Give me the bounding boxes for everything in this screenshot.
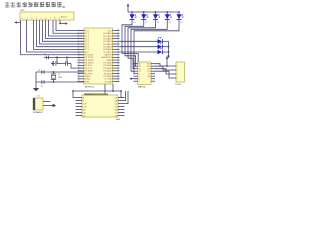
svg-text:21: 21: [117, 80, 119, 82]
svg-text:L4: L4: [169, 22, 171, 24]
capacitor C2: [41, 80, 43, 84]
capacitor C5: [66, 57, 68, 63]
wire reset rail: [44, 56, 84, 58]
svg-text:1: 1: [78, 29, 79, 31]
crystal Y1: [53, 71, 55, 73]
wire RST to MCU: [51, 63, 55, 65]
capacitor C3 (series on rail): [45, 56, 47, 60]
wire MCU GND down: [112, 84, 114, 91]
svg-text:26: 26: [117, 67, 119, 69]
svg-text:29: 29: [117, 59, 119, 61]
LEDs L1-L5: [131, 11, 133, 13]
svg-text:24: 24: [117, 72, 119, 74]
power port arrow down: [167, 56, 170, 59]
resistor pack RP1: [20, 12, 74, 20]
svg-text:P2.6/A14: P2.6/A14: [104, 64, 113, 67]
svg-text:C3: C3: [43, 54, 45, 56]
svg-text:30: 30: [117, 56, 119, 58]
svg-text:8888: 8888: [116, 119, 120, 120]
svg-text:L3: L3: [157, 22, 159, 24]
speaker B1: [33, 98, 43, 110]
svg-text:2: 2: [78, 32, 79, 34]
wire B1 out1: [43, 101, 51, 103]
svg-text:13: 13: [78, 61, 80, 63]
U2 designator: [84, 93, 108, 95]
wires bus to U2 right pins: [121, 91, 125, 98]
svg-text:P2.7/A15: P2.7/A15: [104, 62, 113, 65]
svg-text:C1: C1: [38, 69, 40, 71]
svg-text:10: 10: [78, 53, 80, 55]
LEDs L6-L8 (horizontal): [120, 40, 158, 42]
svg-text:31: 31: [117, 53, 119, 55]
svg-text:EA/VPP: EA/VPP: [105, 54, 113, 57]
svg-text:16: 16: [78, 69, 80, 71]
svg-text:ALE/PROG: ALE/PROG: [102, 56, 113, 59]
wire RP1 pin1 / VCC rail: [21, 20, 85, 55]
svg-text:Y1: Y1: [58, 74, 60, 76]
svg-text:L2: L2: [145, 22, 147, 24]
svg-text:74LS164: 74LS164: [85, 94, 93, 96]
svg-text:3: 3: [177, 74, 178, 76]
svg-text:37: 37: [117, 37, 119, 39]
svg-text:P2.4/A12: P2.4/A12: [104, 70, 113, 73]
wire bottom bus: [73, 90, 121, 92]
svg-text:MAX232: MAX232: [138, 85, 147, 88]
capacitor C1: [41, 70, 43, 74]
ground symbol: [35, 86, 37, 88]
electrolytic capacitor C4: [56, 57, 58, 63]
svg-text:4: 4: [78, 37, 79, 39]
svg-text:5: 5: [78, 40, 79, 42]
wires U3 to J1: [155, 64, 172, 66]
svg-text:12M: 12M: [58, 77, 62, 79]
svg-text:7: 7: [78, 45, 79, 47]
svg-text:CON4: CON4: [175, 84, 181, 86]
svg-text:P0.5/AD5: P0.5/AD5: [103, 45, 112, 48]
VCC power port near RP1 (right arrow): [59, 20, 61, 24]
svg-text:P0.2/AD2: P0.2/AD2: [103, 37, 112, 40]
svg-text:XTAL2: XTAL2: [85, 75, 92, 78]
svg-text:A102J: A102J: [61, 15, 67, 18]
wire LED VCC rail: [128, 11, 179, 13]
svg-text:GND: GND: [85, 81, 90, 83]
wire MCU to U2: [104, 84, 106, 95]
svg-text:P2.1/A9: P2.1/A9: [105, 78, 113, 81]
svg-text:P2.2/A10: P2.2/A10: [104, 75, 113, 78]
svg-text:P0.0/AD0: P0.0/AD0: [103, 32, 112, 35]
svg-text:33: 33: [117, 48, 119, 50]
svg-text:38: 38: [117, 34, 119, 36]
svg-text:L1: L1: [134, 22, 136, 24]
svg-text:P0.7/AD7: P0.7/AD7: [103, 51, 112, 54]
IC U2 74LS164: [82, 95, 118, 117]
svg-text:18: 18: [78, 75, 80, 77]
title text (Chinese caption): [5, 2, 65, 8]
svg-text:34: 34: [117, 45, 119, 47]
svg-text:C2: C2: [41, 86, 43, 88]
svg-text:36: 36: [117, 40, 119, 42]
wire XTAL upper: [36, 71, 84, 73]
svg-text:P0.3/AD3: P0.3/AD3: [103, 40, 112, 43]
svg-text:32: 32: [117, 51, 119, 53]
svg-text:SPEAKER: SPEAKER: [33, 111, 43, 114]
svg-text:AT89C51: AT89C51: [85, 85, 95, 88]
VCC power port (up arrow near J1): [166, 56, 169, 59]
svg-text:1: 1: [177, 66, 178, 68]
svg-text:P0.4/AD4: P0.4/AD4: [103, 43, 112, 46]
svg-text:P2.5/A13: P2.5/A13: [104, 67, 113, 70]
svg-text:XTAL1: XTAL1: [85, 78, 92, 81]
svg-text:12: 12: [78, 59, 80, 61]
svg-text:19: 19: [78, 77, 80, 79]
VCC power port (top right): [127, 3, 130, 6]
wire XTAL lower: [36, 81, 84, 83]
svg-text:14: 14: [78, 64, 80, 66]
svg-text:P2.0/A8: P2.0/A8: [105, 80, 113, 83]
wire bus to U2 pin1: [73, 91, 76, 98]
wire B1 out2 (port arrow): [43, 105, 53, 107]
svg-text:2: 2: [177, 70, 178, 72]
svg-text:25: 25: [117, 69, 119, 71]
svg-text:23: 23: [117, 75, 119, 77]
svg-text:P2.3/A11: P2.3/A11: [104, 72, 113, 75]
VCC power port (left arrow): [17, 22, 21, 24]
svg-text:P0.6/AD6: P0.6/AD6: [103, 48, 112, 51]
svg-text:9: 9: [78, 51, 79, 53]
svg-text:28: 28: [117, 61, 119, 63]
wire crystal left: [35, 72, 37, 86]
svg-text:P0.1/AD1: P0.1/AD1: [103, 35, 112, 38]
IC U3 MAX232: [138, 62, 152, 85]
svg-text:L5: L5: [181, 22, 183, 24]
svg-text:4: 4: [177, 78, 178, 80]
svg-text:22: 22: [117, 77, 119, 79]
svg-text:27: 27: [117, 64, 119, 66]
connector J1: [176, 62, 185, 82]
svg-text:8: 8: [78, 48, 79, 50]
svg-text:3: 3: [78, 34, 79, 36]
junction dots reset rail: [56, 57, 58, 59]
svg-text:LS1: LS1: [37, 96, 40, 98]
MCU U1 AT89C51: [84, 28, 113, 84]
svg-text:40: 40: [117, 29, 119, 31]
wires LED cathodes to U3 (bundle): [122, 20, 138, 64]
port arrow left of U3: [132, 78, 138, 80]
wire LED cathodes join: [168, 41, 170, 55]
svg-text:6: 6: [78, 43, 79, 45]
wires RP1 pins to MCU P1 port (fan): [27, 20, 85, 52]
svg-text:35: 35: [117, 43, 119, 45]
svg-text:39: 39: [117, 32, 119, 34]
